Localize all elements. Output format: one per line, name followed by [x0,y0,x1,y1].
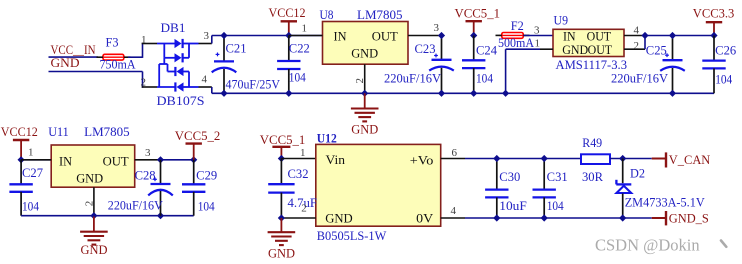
wire U11 OUT rail [161,159,194,161]
svg-text:D2: D2 [630,166,645,180]
svg-text:VCC5_2: VCC5_2 [175,129,221,143]
svg-text:GND: GND [325,211,353,226]
svg-text:DB107S: DB107S [157,94,205,108]
svg-text:3: 3 [434,22,440,34]
svg-text:C24: C24 [476,44,498,58]
svg-text:VCC3.3: VCC3.3 [693,6,735,20]
U11 pin 2 stub [93,187,95,216]
svg-text:GND: GND [81,243,108,257]
bridge inner wire left jog [163,58,165,64]
U8 pin 1 stub [289,35,323,37]
svg-text:3: 3 [145,147,151,159]
fuse F2 [499,33,525,39]
svg-text:C25: C25 [646,43,667,57]
capacitor C23 [429,36,454,94]
svg-text:2: 2 [83,201,95,207]
capacitor C26 [702,36,725,94]
wire VCC12 to U11 [21,159,51,161]
power port VCC5_2 [186,144,202,160]
svg-text:1: 1 [300,147,306,159]
bridge inner wire right bottom [188,72,190,88]
junction U8 pin2/bottom rail [361,90,368,97]
svg-text:220uF/16V: 220uF/16V [108,199,163,213]
svg-text:1: 1 [302,23,308,35]
junction D2/V_CAN rail [619,155,626,162]
svg-text:R49: R49 [582,136,602,150]
svg-text:+Vo: +Vo [410,152,434,167]
bridge inner wire left bottom [158,64,160,87]
wire bottom ground rail (top circuit) [212,92,714,94]
U8 pin 2 stub [364,64,366,93]
svg-text:C28: C28 [135,168,156,182]
junction VCC12/C22/rail [285,32,292,39]
wire bottom rail (row 2 left) [21,215,194,217]
capacitor C30 [485,159,508,219]
junction C30/+Vo rail [493,155,500,162]
U11 pin 3 stub [135,159,161,161]
svg-text:C30: C30 [499,170,520,184]
svg-text:C29: C29 [196,168,217,182]
svg-text:C21: C21 [226,42,247,56]
wire R49 to V_CAN node [610,158,652,160]
pin 2 stub [142,86,157,88]
svg-text:Vin: Vin [326,152,346,167]
svg-text:1: 1 [28,146,34,158]
svg-text:F3: F3 [106,36,119,50]
svg-text:VCC12: VCC12 [1,125,38,139]
junction VCC5_1/C24/rail [470,32,477,39]
power port VCC3.3 [706,22,722,35]
regulator U11 LM7805 box [51,145,135,187]
svg-text:C26: C26 [715,43,736,57]
capacitor C21 [212,36,237,94]
watermark tick [721,241,726,247]
U9 pin 4 stub [624,35,645,37]
svg-text:104: 104 [289,71,307,85]
capacitor C29 [182,160,205,216]
svg-text:C27: C27 [22,166,43,180]
svg-text:30R: 30R [582,170,604,184]
svg-text:3: 3 [204,30,210,42]
svg-text:IN: IN [563,30,576,44]
junction C24/bottom rail [470,90,477,97]
svg-text:2: 2 [634,40,640,52]
dc-dc converter U12 B0505LS-1W box [316,144,441,226]
junction C21/top rail [220,32,227,39]
junction VCC12/C27 [18,156,25,163]
wire U9 pin2 up to 3.3V rail [644,36,646,50]
svg-text:GND: GND [76,171,103,186]
junction C28/bottom rail [157,212,164,219]
U12 pin 1 stub [281,158,315,160]
diode D-C (row 3) [168,71,176,73]
svg-text:U9: U9 [554,13,569,27]
svg-text:VCC__IN: VCC__IN [51,43,96,57]
svg-text:U11: U11 [48,125,68,139]
diode D-B (row 2) [164,57,174,59]
wire bridge pin 4 down to bottom rail [211,87,213,93]
svg-text:IN: IN [334,29,348,44]
junction C25/bottom rail [669,90,676,97]
svg-text:AMS1117-3.3: AMS1117-3.3 [556,58,628,72]
svg-text:GND: GND [562,43,588,57]
svg-text:C22: C22 [289,42,310,56]
svg-text:3: 3 [534,24,540,36]
junction D2/0V rail [619,214,626,221]
svg-text:OUT: OUT [372,29,398,44]
wire U9 GND to bottom rail [506,48,540,50]
svg-text:C31: C31 [547,170,568,184]
svg-text:10uF: 10uF [499,199,527,213]
svg-text:104: 104 [22,199,40,213]
junction VCC3.3/C26 [710,32,717,39]
ground symbol (U11) [80,216,108,258]
svg-text:OUT: OUT [588,43,613,57]
power port VCC12 [281,21,297,35]
svg-text:GND_S: GND_S [669,211,709,225]
wire GND to bridge pin 2 [142,72,144,88]
svg-text:U12: U12 [317,131,337,145]
pin 3 stub [199,43,212,45]
regulator U9 AMS1117-3.3 box [553,29,624,56]
wire 3.3V rail [645,35,714,37]
resistor R49 [581,154,610,164]
U11 pin 1 stub [21,159,51,161]
svg-text:C23: C23 [415,42,436,56]
op-amp/regulator U8 LM7805 box [323,22,409,65]
svg-text:GND: GND [268,246,295,260]
svg-text:220uF/16V: 220uF/16V [384,71,441,85]
capacitor C28 [148,160,173,216]
U12 pin 2 stub [281,217,315,219]
svg-text:470uF/25V: 470uF/25V [226,77,281,91]
junction C21/bottom rail [220,90,227,97]
svg-text:2: 2 [301,202,307,214]
svg-text:VCC5_1: VCC5_1 [260,133,306,147]
wire 0V rail [465,217,652,219]
wire F2 to U9 [524,35,554,37]
capacitor C32 [268,159,294,219]
svg-text:1: 1 [141,34,147,46]
svg-text:F2: F2 [511,19,524,33]
power port VCC5_1 (row 2) [272,147,290,159]
U9 pin 1 (GND) stub [540,48,553,50]
junction U11 pin2/bottom rail [90,212,97,219]
svg-text:6: 6 [452,147,458,159]
svg-text:VCC12: VCC12 [269,6,306,20]
bridge inner wire right top [188,44,190,58]
svg-text:500mA: 500mA [498,36,534,50]
junction C28/rail [157,156,164,163]
capacitor C22 [277,36,300,94]
svg-text:750mA: 750mA [100,58,136,72]
bridge rectifier DB1 DB107S [142,39,212,92]
diode D-D (row 4) [157,86,175,88]
svg-text:OUT: OUT [103,154,129,169]
svg-text:C32: C32 [288,167,309,181]
fuse F2 pin stubs [496,34,502,36]
svg-text:U8: U8 [320,8,334,22]
pin 1 stub [142,43,157,45]
wire +Vo rail [465,158,581,160]
zener diode D2 ZM4733A-5.1V [616,159,631,219]
junction C23/bottom rail [438,90,445,97]
bridge inner wire left top [163,44,165,58]
svg-text:1: 1 [535,37,541,49]
svg-text:B0505LS-1W: B0505LS-1W [317,229,387,243]
svg-text:4: 4 [202,74,208,86]
svg-text:220uF/16V: 220uF/16V [611,71,668,85]
svg-text:ZM4733A-5.1V: ZM4733A-5.1V [625,196,705,210]
power port VCC5_1 [466,21,482,35]
junction C23/top rail [438,32,445,39]
junction U9 GND/bottom rail [502,90,509,97]
svg-text:LM7805: LM7805 [357,8,403,22]
svg-text:VCC5_1: VCC5_1 [455,6,501,20]
svg-text:4: 4 [451,205,457,217]
port V_CAN [652,152,711,167]
wire GND input [49,71,143,73]
junction C32/U12 pin2 [278,214,285,221]
svg-text:IN: IN [59,154,73,169]
U12 pin 6 stub [441,158,465,160]
ground symbol (U12 input) [268,218,296,260]
svg-text:104: 104 [476,71,494,85]
capacitor C31 [533,159,556,219]
junction VCC5_2/C29 [190,156,197,163]
diode D-A (row 1) [157,43,175,45]
wire VCC_IN input [49,56,99,58]
svg-text:GND: GND [51,56,80,70]
capacitor C24 [462,36,485,94]
svg-text:104: 104 [198,199,216,213]
junction C30/0V rail [493,214,500,221]
ground symbol (U8) [351,93,379,136]
svg-text:104: 104 [715,72,733,86]
svg-text:0V: 0V [416,211,434,226]
svg-text:LM7805: LM7805 [84,125,130,139]
junction C31/0V rail [541,214,548,221]
capacitor C25 [660,36,685,94]
junction VCC5_1/C32/U12 pin1 [278,155,285,162]
svg-text:V_CAN: V_CAN [669,153,711,167]
junction C31/+Vo rail [541,155,548,162]
svg-text:4: 4 [634,24,640,36]
svg-text:GND: GND [351,122,378,136]
capacitor C27 [9,160,32,216]
wire top rail (bridge to U8) [212,35,323,37]
junction U9 outputs [641,32,648,39]
svg-text:OUT: OUT [587,30,612,44]
U9 pin 2 stub [624,48,645,50]
wire fuse F3 to bridge pin 1 [128,56,143,58]
pin 4 stub [199,86,212,88]
svg-text:GND: GND [351,46,378,61]
U8 pin 3 stub [408,35,442,37]
svg-text:2: 2 [141,77,147,89]
svg-text:DB1: DB1 [161,21,186,35]
svg-text:2: 2 [354,78,366,84]
power port VCC12 (row 2) [13,140,29,160]
fuse F3 [101,54,127,60]
port GND_S [652,211,709,225]
svg-text:104: 104 [547,199,565,213]
junction C25/top rail [669,32,676,39]
junction C22/bottom rail [285,90,292,97]
wire bridge pin 3 up to top rail [211,36,213,44]
svg-text:CSDN @Dokin: CSDN @Dokin [595,236,700,255]
fuse F3 pin stubs [97,56,104,58]
bridge inner wire row3 drop [167,64,169,72]
U12 pin 4 stub [441,217,465,219]
